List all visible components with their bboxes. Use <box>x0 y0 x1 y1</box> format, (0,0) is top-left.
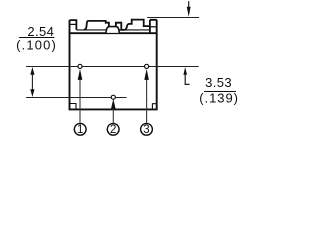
terminal 2 arrow <box>111 99 116 123</box>
dimension arrow 2.54 (double headed, left) <box>30 67 34 97</box>
bump 2 <box>125 20 150 30</box>
body top edge <box>70 32 157 34</box>
extension line through pin 2 <box>26 97 127 99</box>
fraction bar right <box>204 91 236 93</box>
center hump <box>106 27 119 33</box>
svg-text:3.53: 3.53 <box>205 75 232 90</box>
pin 2 hole <box>111 95 115 99</box>
terminal number 2 <box>107 123 119 136</box>
corner notch bottom-left <box>70 104 77 110</box>
pin 1 hole <box>78 64 82 68</box>
terminal 1 arrow <box>78 69 83 123</box>
ledge base line <box>76 29 149 31</box>
terminal number 1 <box>74 123 86 136</box>
extension line through pins 1 and 3 <box>26 66 199 68</box>
corner notch bottom-right <box>152 104 156 110</box>
svg-text:(.100): (.100) <box>16 38 57 53</box>
svg-text:2.54: 2.54 <box>27 24 54 39</box>
dimension arrow down (3.53 top) <box>187 1 191 17</box>
svg-text:1: 1 <box>77 124 83 136</box>
fraction bar left <box>19 37 55 39</box>
svg-text:(.139): (.139) <box>199 91 239 106</box>
right step ledge <box>116 23 125 30</box>
pin 3 hole <box>145 64 149 68</box>
component body outline <box>70 20 157 110</box>
right mounting tab <box>150 20 157 33</box>
svg-text:3: 3 <box>143 124 149 136</box>
terminal 3 arrow <box>144 69 149 123</box>
svg-text:2: 2 <box>110 124 116 136</box>
extension line top (3.53 upper reference) <box>147 17 199 19</box>
bump 1 <box>84 21 109 30</box>
terminal number 3 <box>141 123 153 136</box>
left mounting tab <box>70 20 77 30</box>
dimension arrow up with leader (3.53 bottom) <box>183 67 189 84</box>
